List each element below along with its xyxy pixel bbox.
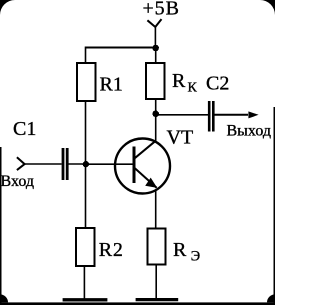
wire: Re bottom to ground xyxy=(155,266,157,300)
capacitor C1 xyxy=(63,148,67,180)
transistor VT xyxy=(115,139,170,194)
wire: emitter down to Re xyxy=(155,191,157,228)
wire: input to C1 xyxy=(25,163,62,165)
wire: C2 to output arrow xyxy=(215,114,249,116)
svg-text:C2: C2 xyxy=(206,73,229,95)
wire: base wire to transistor xyxy=(86,163,133,165)
capacitor C2 xyxy=(209,101,213,132)
wire: collector node to transistor xyxy=(155,113,157,141)
svg-text:Вход: Вход xyxy=(1,173,35,190)
wire: terminal stem to rail xyxy=(154,27,156,48)
svg-text:+5В: +5В xyxy=(143,0,180,20)
wire: collector node to C2 xyxy=(156,114,208,116)
transistor emitter arrowhead xyxy=(145,178,157,188)
resistor R1 xyxy=(77,63,96,101)
ground symbol right xyxy=(136,298,179,301)
wire: base node down to R2 xyxy=(85,164,87,227)
wire: rail down to R1 xyxy=(85,47,87,63)
input terminal xyxy=(17,157,25,170)
svg-text:К: К xyxy=(188,81,198,96)
wire: power rail xyxy=(86,47,156,49)
output arrow xyxy=(248,111,258,118)
resistor Re xyxy=(148,229,166,265)
resistor Rk xyxy=(146,63,165,99)
svg-text:C1: C1 xyxy=(13,118,36,140)
svg-text:R: R xyxy=(172,70,186,92)
svg-text:R1: R1 xyxy=(100,74,123,96)
ground symbol left xyxy=(63,298,108,301)
svg-text:R: R xyxy=(173,239,187,261)
wire: rail down to Rk xyxy=(155,48,157,63)
svg-text:Выход: Выход xyxy=(227,123,272,140)
node: base junction xyxy=(83,161,89,167)
svg-text:R2: R2 xyxy=(99,239,124,261)
svg-text:Э: Э xyxy=(191,249,200,265)
power +5V terminal symbol xyxy=(147,19,161,27)
node: power rail junction xyxy=(152,45,159,52)
wire: R1 bottom to base node xyxy=(85,102,87,164)
resistor R2 xyxy=(76,228,95,266)
node: collector junction xyxy=(152,111,159,118)
wire: Rk bottom to collector node xyxy=(155,100,157,113)
svg-text:VT: VT xyxy=(167,127,194,149)
wire: R2 bottom to ground xyxy=(83,267,85,299)
wire: C1 to base node xyxy=(69,163,86,165)
